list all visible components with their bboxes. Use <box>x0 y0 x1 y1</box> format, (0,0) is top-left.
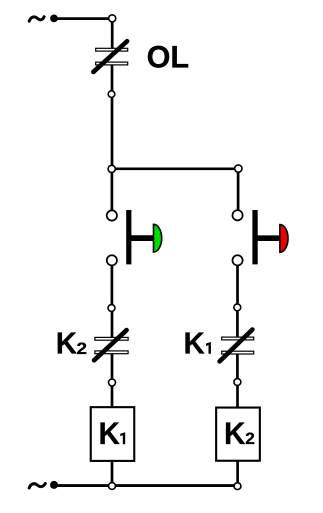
node circle above K1 contact <box>234 304 241 311</box>
wire: node to K2 contact <box>111 307 114 338</box>
wire: coil K1 to bottom rail <box>111 462 114 487</box>
svg-text:OL: OL <box>147 39 190 75</box>
wire: node to coil K2 <box>236 382 239 408</box>
svg-text:K: K <box>183 327 204 361</box>
AC source tilde (bottom) <box>29 484 45 489</box>
wire: K1 contact to node <box>236 354 239 382</box>
wire: K2 contact to node <box>111 354 114 383</box>
wire: PB2 to K1 contact node <box>236 257 239 307</box>
overload contact OL <box>93 41 127 72</box>
junction dot (bottom rail) <box>50 481 58 489</box>
node circle below K2 contact <box>109 379 116 386</box>
label OL <box>147 39 190 75</box>
node circle below K1 contact <box>234 379 241 386</box>
pushbutton PB1 green cap <box>154 224 162 252</box>
NC contact K1 (right) <box>220 330 254 362</box>
wire: PB1 to K2 contact node <box>111 257 114 307</box>
wire: OL to node circle <box>111 65 114 94</box>
node terminal circle (top) <box>109 15 116 22</box>
AC source tilde (top) <box>29 17 44 22</box>
svg-text:2: 2 <box>245 429 255 448</box>
label K2 (right coil) <box>224 416 255 451</box>
svg-text:K: K <box>99 416 120 451</box>
svg-text:2: 2 <box>77 339 88 358</box>
node circle below OL <box>108 91 115 98</box>
wire bottom rail <box>54 484 238 487</box>
wire: node to coil K1 <box>111 383 114 408</box>
node circle above K2 contact <box>108 305 115 312</box>
wire top rail <box>54 17 112 20</box>
label K2 (left contact) <box>56 327 87 361</box>
junction node right <box>235 165 242 172</box>
pushbutton PB2 plunger <box>255 210 280 264</box>
coil K2 box (right) <box>216 408 260 461</box>
svg-text:K: K <box>224 416 245 451</box>
wire: top terminal to OL <box>111 21 114 49</box>
coil K1 box (left) <box>91 407 135 461</box>
pushbutton PB2 red cap <box>280 225 288 253</box>
label K1 (left coil) <box>99 416 126 451</box>
node circle bottom rail right <box>234 483 241 490</box>
wire: node to left junction <box>111 98 114 170</box>
wire branch rail <box>112 167 239 170</box>
pushbutton PB1 green (left) contact circles <box>107 210 117 265</box>
svg-text:K: K <box>56 327 77 361</box>
pushbutton PB1 plunger <box>129 210 154 264</box>
wire: right junction to stop button <box>237 169 240 213</box>
junction dot (top rail) <box>50 15 58 23</box>
wire: node to K1 contact <box>236 307 239 337</box>
junction node left <box>108 165 115 172</box>
NC contact K2 (left) <box>94 330 128 360</box>
label K1 (right contact) <box>183 327 210 361</box>
wire: coil K2 to bottom rail <box>236 462 239 487</box>
wire: left junction to start button <box>111 169 114 213</box>
node circle bottom rail left <box>109 483 116 490</box>
pushbutton PB2 red (right) contact circles <box>232 210 242 265</box>
